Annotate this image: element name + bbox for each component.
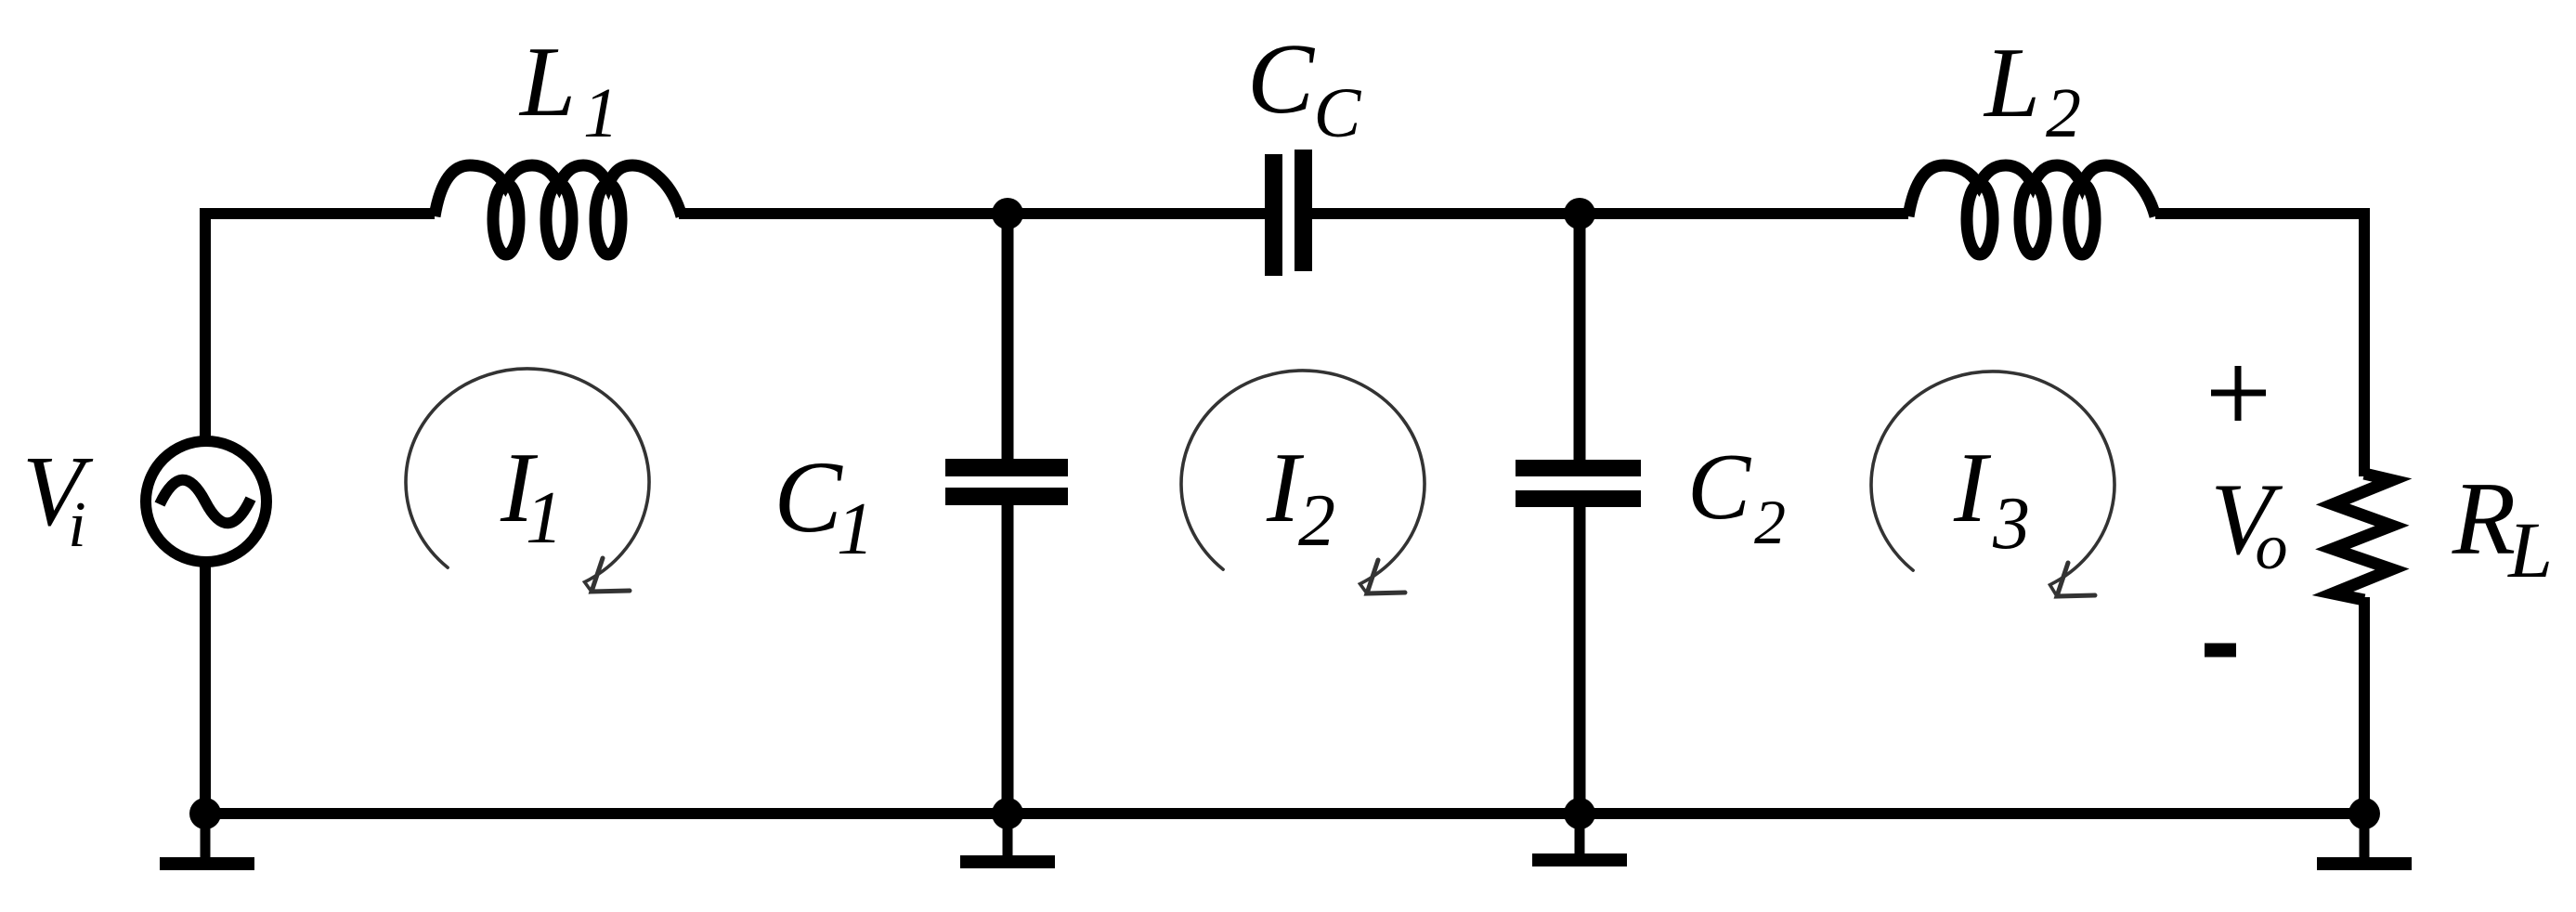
inductor L2 — [1908, 165, 2155, 254]
svg-text:1: 1 — [583, 74, 618, 152]
label L1 — [518, 27, 618, 152]
label C1 — [774, 440, 874, 570]
node dot bottom left — [189, 798, 221, 829]
label Vi — [22, 436, 94, 561]
minus sign (output polarity) — [2205, 644, 2236, 658]
wire top rail middle segment (L1 to Cc left plate) — [679, 208, 1265, 219]
wire C2 stem lower — [1574, 507, 1586, 814]
label I2 — [1266, 433, 1335, 562]
wire top rail right segment (L2 to top-right corner) — [2155, 208, 2370, 219]
label Cc — [1247, 24, 1362, 152]
inductor L1 — [435, 165, 682, 254]
wire left rail upper (top rail to source) — [200, 208, 211, 442]
svg-text:o: o — [2256, 512, 2288, 583]
mesh current arrow I2 — [1181, 371, 1425, 593]
svg-text:2: 2 — [2046, 74, 2081, 152]
label RL — [2452, 462, 2553, 594]
wire bottom rail — [205, 808, 2364, 819]
label Vo — [2210, 463, 2287, 583]
mesh current arrow I1 — [406, 369, 649, 592]
svg-text:C: C — [774, 440, 843, 554]
svg-text:C: C — [1247, 24, 1316, 135]
ground symbol 1 (left) — [160, 814, 254, 864]
ground symbol 3 (under C2) — [1532, 814, 1627, 860]
label I1 — [500, 433, 563, 559]
svg-text:2: 2 — [1754, 487, 1786, 557]
svg-text:1: 1 — [526, 477, 563, 559]
svg-text:C: C — [1687, 435, 1751, 540]
svg-text:L: L — [2506, 505, 2553, 594]
wire top rail segment (Cc right plate to L2) — [1311, 208, 1908, 219]
svg-text:L: L — [518, 27, 576, 137]
capacitor C1 (shunt) — [945, 459, 1068, 505]
wire C1 stem lower — [1002, 505, 1014, 814]
svg-text:3: 3 — [1992, 483, 2030, 565]
ground symbol 4 (right) — [2317, 814, 2412, 864]
svg-text:i: i — [68, 489, 85, 561]
node dot bottom C1 — [992, 798, 1023, 829]
voltage source Vi (AC source circle with sine) — [146, 441, 267, 562]
wire left rail lower (source to bottom rail) — [200, 561, 211, 814]
wire top rail left segment — [205, 208, 435, 219]
capacitor C2 (shunt) — [1516, 460, 1641, 507]
svg-text:L: L — [1983, 28, 2040, 138]
svg-text:2: 2 — [1298, 480, 1335, 562]
svg-text:1: 1 — [837, 489, 874, 570]
node dot top C1 — [992, 198, 1023, 229]
svg-text:C: C — [1314, 74, 1362, 152]
label I3 — [1953, 433, 2030, 565]
label L2 — [1983, 28, 2081, 152]
label C2 — [1687, 435, 1786, 557]
node dot top C2 — [1564, 198, 1595, 229]
wire right rail lower (resistor to bottom rail) — [2359, 597, 2370, 814]
plus sign (output polarity) — [2211, 366, 2266, 421]
node dot bottom right — [2348, 798, 2380, 829]
svg-text:R: R — [2452, 462, 2516, 577]
resistor RL — [2333, 474, 2392, 600]
ground symbol 2 (under C1) — [960, 814, 1055, 862]
capacitor Cc (series coupling cap) — [1265, 150, 1312, 276]
wire C2 stem upper — [1574, 214, 1586, 460]
wire C1 stem upper — [1002, 214, 1014, 459]
wire right rail upper (corner to resistor) — [2359, 208, 2370, 476]
mesh current arrow I3 — [1871, 371, 2114, 596]
svg-text:I: I — [1953, 433, 1992, 543]
node dot bottom C2 — [1564, 798, 1595, 829]
